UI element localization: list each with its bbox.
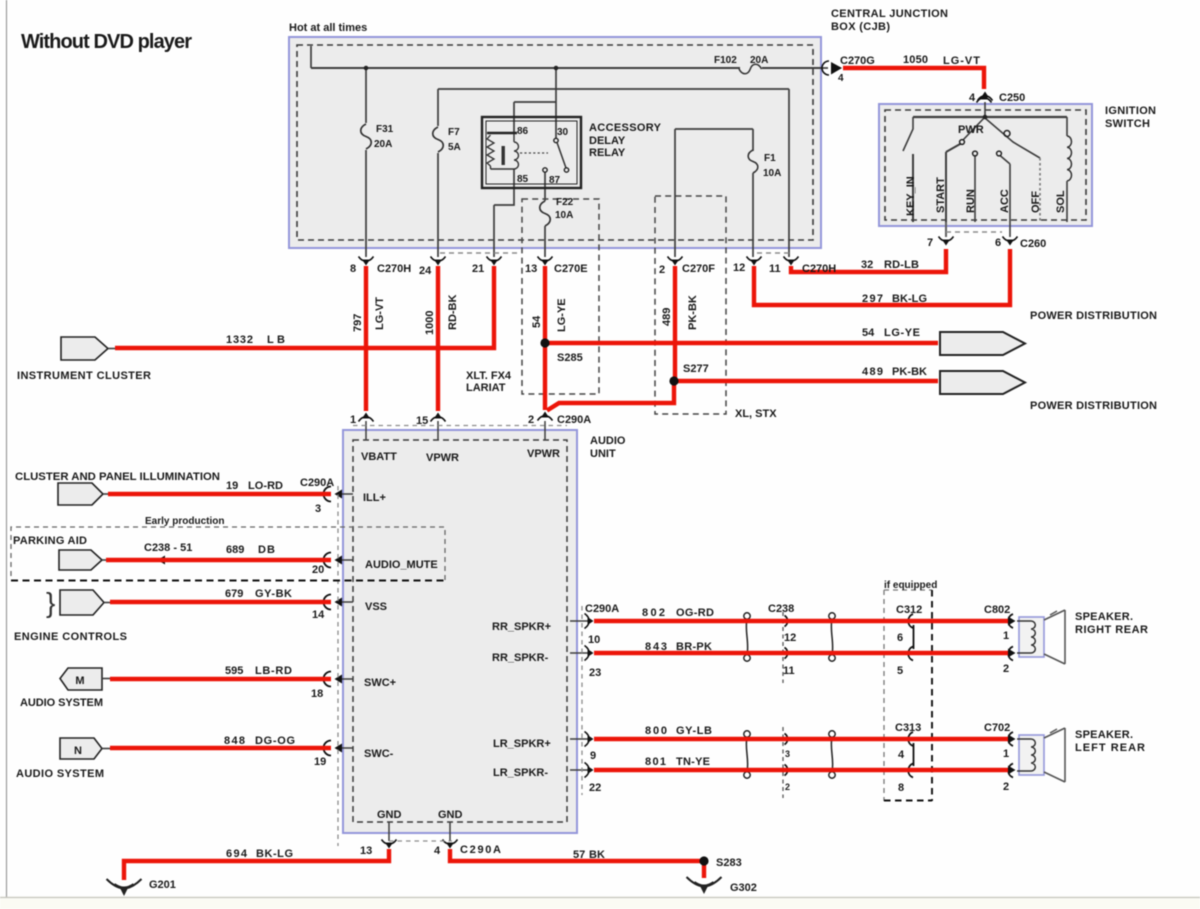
svg-text:LR_SPKR+: LR_SPKR+ [493,738,551,750]
svg-text:19: 19 [314,756,326,768]
svg-text:C270F: C270F [682,263,715,275]
svg-text:RIGHT REAR: RIGHT REAR [1075,624,1148,636]
svg-text:C702: C702 [984,722,1010,734]
svg-text:F22: F22 [556,197,574,208]
svg-text:10A: 10A [763,168,781,179]
svg-text:ACC: ACC [999,189,1011,213]
svg-text:AUDIO SYSTEM: AUDIO SYSTEM [16,768,104,780]
svg-text:POWER DISTRIBUTION: POWER DISTRIBUTION [1030,400,1157,412]
svg-text:CLUSTER AND PANEL ILLUMINATION: CLUSTER AND PANEL ILLUMINATION [15,471,220,483]
svg-text:11: 11 [769,263,781,275]
svg-text:C250: C250 [999,92,1025,104]
svg-text:2: 2 [1003,781,1009,793]
svg-text:87: 87 [549,175,561,186]
svg-text:C290A: C290A [557,414,591,426]
svg-text:RR_SPKR-: RR_SPKR- [492,652,549,664]
svg-text:18: 18 [311,688,323,700]
svg-text:UNIT: UNIT [590,448,616,460]
svg-text:5A: 5A [448,142,461,153]
svg-text:797: 797 [352,314,364,332]
svg-text:}: } [46,587,55,618]
svg-text:801: 801 [645,756,666,768]
svg-text:F1: F1 [764,153,776,164]
svg-text:C290A: C290A [585,603,619,615]
svg-text:DG-OG: DG-OG [255,735,295,747]
svg-text:9: 9 [590,750,596,762]
svg-text:SOL: SOL [1055,190,1067,213]
svg-text:AUDIO: AUDIO [590,435,626,447]
svg-text:PARKING AID: PARKING AID [13,535,87,547]
svg-text:LEFT REAR: LEFT REAR [1075,742,1145,754]
svg-text:10A: 10A [555,210,573,221]
svg-text:TN-YE: TN-YE [676,756,710,768]
svg-text:22: 22 [589,782,601,794]
svg-text:11: 11 [783,665,795,677]
svg-text:23: 23 [589,667,601,679]
svg-text:LARIAT: LARIAT [466,382,506,394]
svg-text:C238 - 51: C238 - 51 [144,542,192,554]
svg-text:4: 4 [969,92,976,104]
svg-text:848: 848 [224,735,245,747]
svg-text:VPWR: VPWR [426,452,459,464]
svg-text:POWER DISTRIBUTION: POWER DISTRIBUTION [1030,310,1157,322]
svg-text:GY-LB: GY-LB [676,725,712,737]
svg-text:C290A: C290A [300,477,334,489]
svg-text:679: 679 [225,588,243,600]
svg-text:S283: S283 [716,857,742,869]
svg-text:LR_SPKR-: LR_SPKR- [493,767,548,779]
svg-text:S277: S277 [683,363,709,375]
svg-text:SPEAKER.: SPEAKER. [1075,611,1133,623]
svg-text:30: 30 [557,127,569,138]
svg-text:OFF: OFF [1030,191,1042,213]
svg-text:PK-BK: PK-BK [892,366,927,378]
svg-text:RD-LB: RD-LB [884,259,919,271]
svg-text:C260: C260 [1020,238,1046,250]
svg-text:INSTRUMENT CLUSTER: INSTRUMENT CLUSTER [17,370,151,382]
svg-text:20: 20 [312,564,324,576]
svg-text:3: 3 [315,503,321,515]
svg-text:SPEAKER.: SPEAKER. [1075,729,1133,741]
svg-text:8: 8 [898,782,904,794]
svg-text:RELAY: RELAY [589,147,626,159]
svg-text:Without DVD player: Without DVD player [21,31,192,53]
svg-text:C270E: C270E [554,263,588,275]
svg-text:LB: LB [267,334,285,346]
svg-text:BK-LG: BK-LG [892,293,927,305]
svg-text:LO-RD: LO-RD [248,480,283,492]
svg-text:689: 689 [226,544,244,556]
svg-text:G201: G201 [149,879,176,891]
svg-text:LG-VT: LG-VT [374,297,386,330]
svg-text:ILL+: ILL+ [363,492,386,504]
svg-text:5: 5 [897,665,903,677]
svg-text:489: 489 [862,366,883,378]
svg-text:BK-LG: BK-LG [256,848,293,860]
svg-text:GND: GND [438,809,463,821]
svg-text:2: 2 [659,264,665,276]
svg-text:C270H: C270H [377,263,411,275]
svg-text:C313: C313 [895,722,921,734]
svg-text:XLT. FX4: XLT. FX4 [466,370,512,382]
svg-text:802: 802 [642,607,665,619]
svg-text:C312: C312 [896,604,922,616]
svg-text:24: 24 [419,265,432,277]
svg-text:7: 7 [927,237,933,249]
svg-text:1: 1 [350,414,356,426]
svg-text:12: 12 [784,632,796,644]
svg-text:595: 595 [225,665,243,677]
svg-text:VBATT: VBATT [361,451,397,463]
svg-text:LG-YE: LG-YE [884,327,920,339]
svg-text:AUDIO SYSTEM: AUDIO SYSTEM [20,697,103,709]
svg-text:C802: C802 [984,604,1010,616]
svg-text:Hot at all times: Hot at all times [289,22,367,34]
svg-text:BK: BK [589,849,605,861]
svg-text:SWITCH: SWITCH [1105,118,1150,130]
svg-text:4: 4 [838,73,844,84]
svg-text:START: START [935,177,947,213]
svg-text:CENTRAL JUNCTION: CENTRAL JUNCTION [831,8,948,20]
svg-text:F102: F102 [714,55,737,66]
svg-text:21: 21 [472,263,484,275]
svg-text:1: 1 [1003,630,1009,642]
svg-text:1050: 1050 [903,54,928,66]
svg-text:86: 86 [517,126,529,137]
svg-text:F31: F31 [376,124,394,135]
svg-text:13: 13 [525,263,537,275]
svg-text:RUN: RUN [965,189,977,213]
svg-text:843: 843 [645,641,667,653]
svg-text:2: 2 [785,782,790,792]
svg-text:AUDIO_MUTE: AUDIO_MUTE [365,559,438,571]
svg-text:BR-PK: BR-PK [676,641,712,653]
svg-text:13: 13 [360,845,372,857]
svg-text:C270G: C270G [840,55,875,67]
svg-text:4: 4 [898,749,905,761]
svg-text:GY-BK: GY-BK [255,588,292,600]
svg-text:32: 32 [861,259,873,271]
svg-text:3: 3 [785,749,790,759]
svg-text:PWR: PWR [958,124,984,136]
svg-text:VSS: VSS [365,601,387,613]
svg-text:PK-BK: PK-BK [687,295,699,330]
svg-text:C270H: C270H [802,263,836,275]
svg-text:6: 6 [995,237,1001,249]
svg-text:S285: S285 [557,352,583,364]
svg-text:54: 54 [862,327,875,339]
svg-text:800: 800 [645,725,667,737]
svg-text:10: 10 [588,634,600,646]
svg-text:OG-RD: OG-RD [676,607,714,619]
svg-text:SWC-: SWC- [364,748,394,760]
svg-text:C238: C238 [768,603,794,615]
svg-text:19: 19 [226,480,238,492]
svg-text:KEY_IN: KEY_IN [905,176,917,216]
svg-text:BOX (CJB): BOX (CJB) [831,21,890,33]
svg-text:LG-VT: LG-VT [943,55,980,67]
svg-text:SWC+: SWC+ [364,677,396,689]
svg-text:1332: 1332 [226,334,253,346]
svg-text:6: 6 [897,632,903,644]
svg-text:15: 15 [416,415,428,427]
svg-text:85: 85 [517,174,529,185]
svg-text:8: 8 [350,263,356,275]
svg-text:20A: 20A [750,55,768,66]
svg-text:489: 489 [661,308,673,326]
svg-text:297: 297 [862,293,883,305]
svg-text:G302: G302 [730,882,757,894]
svg-text:12: 12 [733,262,745,274]
svg-text:XL, STX: XL, STX [735,408,777,420]
svg-text:IGNITION: IGNITION [1105,105,1156,117]
svg-text:1000: 1000 [424,311,436,335]
svg-text:LG-YE: LG-YE [556,298,568,332]
svg-text:694: 694 [226,848,248,860]
svg-text:RR_SPKR+: RR_SPKR+ [492,621,551,633]
svg-text:2: 2 [1003,663,1009,675]
svg-text:F7: F7 [448,127,460,138]
svg-text:C290A: C290A [460,844,501,856]
svg-text:M: M [75,675,84,687]
svg-text:ACCESSORY: ACCESSORY [589,122,662,134]
svg-text:ENGINE CONTROLS: ENGINE CONTROLS [14,631,127,643]
svg-text:GND: GND [377,809,402,821]
svg-text:57: 57 [573,849,585,861]
svg-text:54: 54 [531,315,543,328]
svg-text:N: N [74,745,82,757]
svg-text:14: 14 [312,609,325,621]
svg-text:4: 4 [434,845,441,857]
svg-text:1: 1 [1003,748,1009,760]
svg-text:DB: DB [258,544,275,556]
svg-text:VPWR: VPWR [527,448,560,460]
svg-text:2: 2 [528,414,534,426]
svg-text:Early production: Early production [145,516,224,527]
svg-text:DELAY: DELAY [589,135,626,147]
svg-text:RD-BK: RD-BK [447,295,459,330]
svg-text:if equipped: if equipped [884,580,937,591]
svg-text:LB-RD: LB-RD [255,665,292,677]
svg-text:20A: 20A [374,139,392,150]
